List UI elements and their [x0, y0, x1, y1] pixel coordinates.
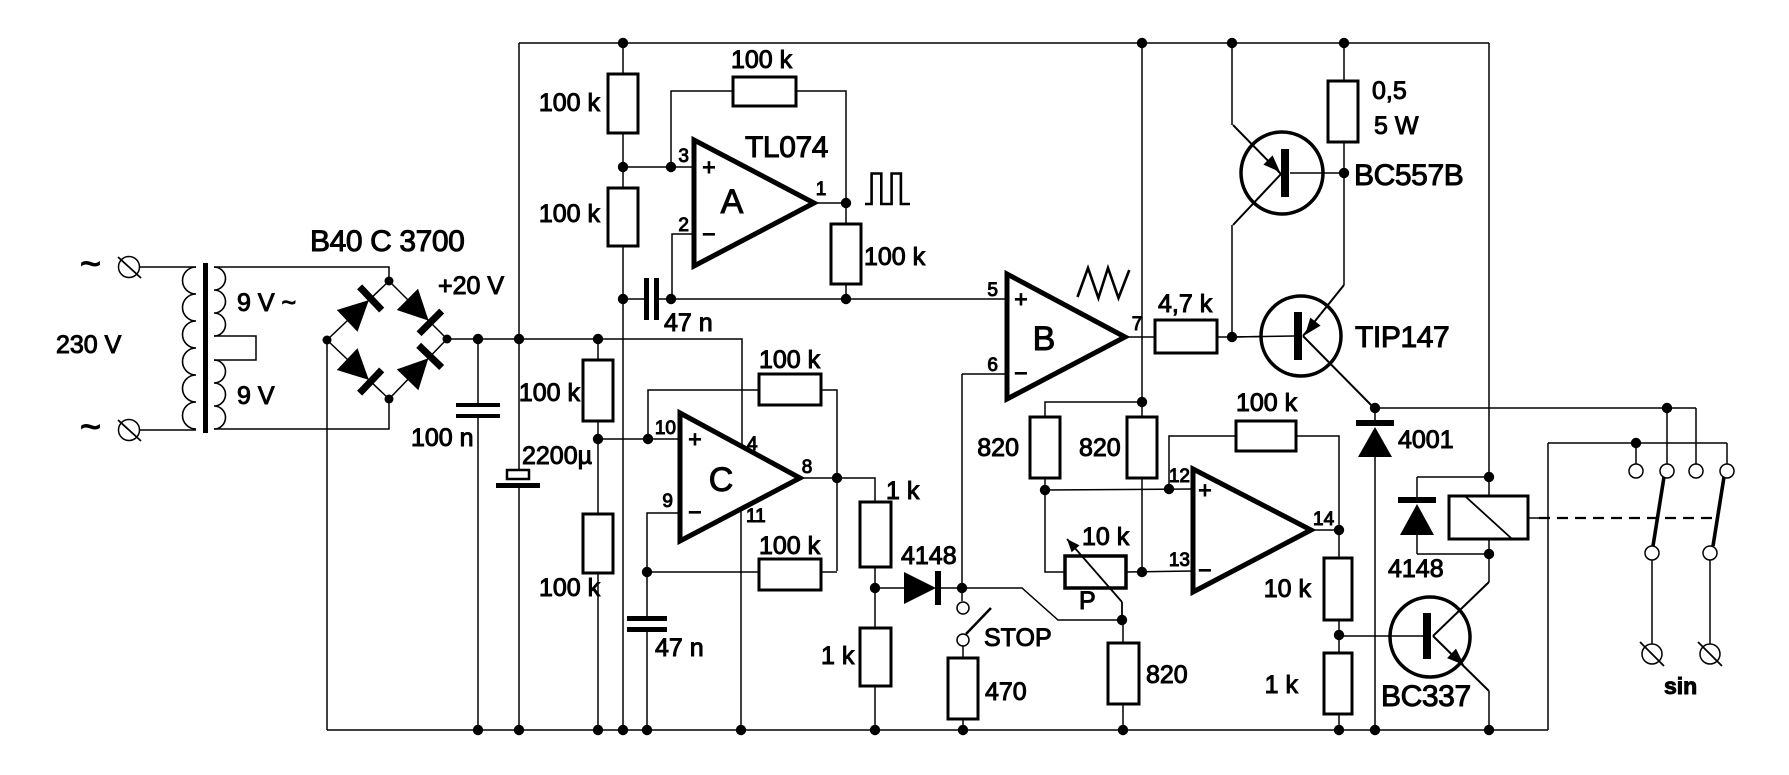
svg-text:100 n: 100 n — [411, 424, 474, 452]
svg-text:820: 820 — [1079, 434, 1121, 462]
svg-text:B: B — [1033, 320, 1056, 358]
svg-text:+20 V: +20 V — [438, 272, 504, 300]
svg-text:4: 4 — [747, 434, 758, 455]
svg-text:470: 470 — [985, 678, 1027, 706]
svg-text:1 k: 1 k — [886, 477, 920, 505]
svg-text:2200µ: 2200µ — [522, 442, 592, 470]
svg-text:BC557B: BC557B — [1354, 159, 1463, 192]
svg-text:+: + — [1014, 286, 1027, 312]
svg-text:TIP147: TIP147 — [1355, 321, 1449, 354]
svg-text:8: 8 — [802, 457, 813, 478]
svg-text:9: 9 — [662, 491, 673, 512]
svg-text:47 n: 47 n — [664, 309, 713, 337]
svg-text:820: 820 — [977, 434, 1019, 462]
svg-text:5: 5 — [987, 280, 998, 301]
svg-text:2: 2 — [678, 215, 689, 236]
svg-text:100 k: 100 k — [864, 243, 926, 271]
svg-text:A: A — [721, 183, 744, 221]
svg-text:1 k: 1 k — [821, 642, 855, 670]
svg-text:100 k: 100 k — [539, 200, 601, 228]
svg-text:−: − — [1014, 360, 1027, 386]
svg-text:+: + — [702, 154, 715, 180]
svg-text:4148: 4148 — [1388, 555, 1444, 583]
svg-text:9 V ~: 9 V ~ — [237, 289, 296, 317]
svg-text:4001: 4001 — [1398, 426, 1454, 454]
svg-text:B40 C 3700: B40 C 3700 — [310, 225, 464, 258]
svg-text:−: − — [702, 221, 715, 247]
svg-text:100 k: 100 k — [759, 532, 821, 560]
svg-text:10 k: 10 k — [1082, 523, 1130, 551]
svg-text:3: 3 — [678, 146, 689, 167]
svg-text:820: 820 — [1146, 661, 1188, 689]
svg-text:0,5: 0,5 — [1372, 77, 1407, 105]
svg-text:sin: sin — [1664, 673, 1697, 699]
svg-text:~: ~ — [80, 243, 101, 284]
svg-text:100 k: 100 k — [731, 46, 793, 74]
svg-text:C: C — [709, 461, 734, 499]
svg-text:1: 1 — [816, 179, 827, 200]
svg-text:10: 10 — [655, 418, 676, 439]
svg-text:−: − — [688, 499, 701, 525]
svg-text:+: + — [1198, 477, 1211, 503]
svg-text:P: P — [1079, 587, 1096, 615]
svg-text:11: 11 — [746, 506, 766, 527]
svg-text:1 k: 1 k — [1265, 671, 1299, 699]
svg-text:+: + — [688, 426, 701, 452]
svg-text:100 k: 100 k — [539, 574, 601, 602]
svg-text:100 k: 100 k — [539, 89, 601, 117]
svg-text:4,7 k: 4,7 k — [1158, 290, 1213, 318]
svg-text:47 n: 47 n — [655, 634, 704, 662]
svg-text:TL074: TL074 — [745, 131, 828, 164]
svg-text:100 k: 100 k — [519, 379, 581, 407]
svg-text:STOP: STOP — [984, 624, 1052, 652]
svg-text:6: 6 — [987, 355, 998, 376]
svg-text:4148: 4148 — [901, 542, 957, 570]
svg-text:100 k: 100 k — [759, 346, 821, 374]
svg-text:10 k: 10 k — [1264, 575, 1312, 603]
svg-text:9 V: 9 V — [237, 382, 275, 410]
svg-text:100 k: 100 k — [1236, 389, 1298, 417]
svg-text:−: − — [1198, 557, 1211, 583]
svg-text:7: 7 — [1132, 314, 1143, 335]
svg-text:~: ~ — [80, 406, 101, 447]
svg-text:12: 12 — [1169, 466, 1190, 487]
svg-text:13: 13 — [1169, 550, 1190, 571]
svg-text:5 W: 5 W — [1374, 112, 1419, 140]
svg-text:14: 14 — [1313, 509, 1335, 530]
svg-text:230 V: 230 V — [56, 331, 122, 359]
svg-text:BC337: BC337 — [1381, 680, 1471, 713]
